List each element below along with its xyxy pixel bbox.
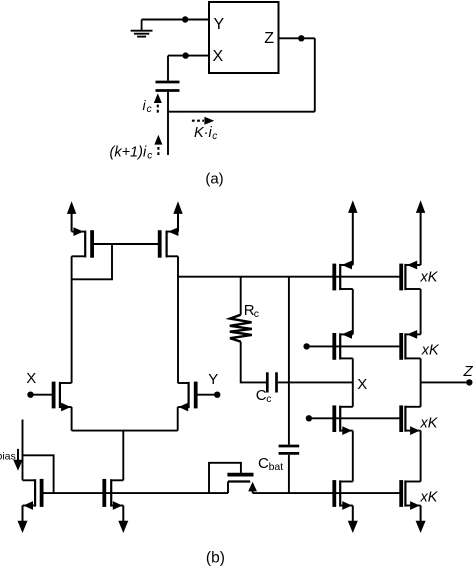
svg-text:bat: bat xyxy=(269,461,284,473)
ground arrow inner column xyxy=(352,506,354,523)
wire X down to capacitor xyxy=(167,56,169,81)
wire X input xyxy=(168,55,209,57)
svg-text:Y: Y xyxy=(208,371,218,388)
capacitor C (floating cap) xyxy=(156,81,180,84)
vdd arrow left mirror xyxy=(71,213,73,232)
wire tail right xyxy=(177,407,179,431)
svg-text:X: X xyxy=(213,48,224,65)
node dot on Z wire xyxy=(298,35,304,41)
wire comp vertical upper xyxy=(288,277,290,445)
wire Y gate xyxy=(196,394,218,396)
wire cascode gate row3 xyxy=(309,417,401,419)
nmos M14 (output row4 inner) xyxy=(332,480,336,507)
svg-text:(b): (b) xyxy=(206,550,225,567)
wire diode tie M1 xyxy=(72,244,112,279)
wire node x horizontal xyxy=(278,381,353,383)
svg-text:(k+1)i: (k+1)i xyxy=(110,144,147,160)
ground arrow M5 xyxy=(22,506,24,523)
wire bias input vertical xyxy=(22,420,24,481)
svg-text:Z: Z xyxy=(264,30,274,47)
wire tail down to sink xyxy=(122,431,124,481)
vdd arrow right mirror xyxy=(177,213,179,232)
svg-text:(a): (a) xyxy=(205,170,223,187)
wire Y input xyxy=(142,19,209,21)
capacitor Cc xyxy=(266,372,269,392)
svg-text:c: c xyxy=(254,308,259,320)
svg-text:K·i: K·i xyxy=(194,125,213,141)
svg-text:c: c xyxy=(147,150,152,161)
pmos M9 (output row1 outer, xK) xyxy=(399,264,403,291)
ground arrow outer column xyxy=(420,506,422,523)
svg-text:xK: xK xyxy=(420,490,439,506)
mos M7 gate loop xyxy=(209,463,241,493)
ground arrow M6 xyxy=(122,506,124,523)
wire X gate xyxy=(31,394,54,396)
nmos M12 (cascode row3 inner) xyxy=(332,405,336,432)
node dot Z xyxy=(466,379,472,385)
svg-text:C: C xyxy=(258,455,269,472)
wire row1-row2 outer xyxy=(420,289,422,334)
wire bias diode tie xyxy=(23,455,54,493)
wire Z output xyxy=(279,37,315,39)
wire M1 drain down xyxy=(71,256,73,383)
pmos M10 (cascode row2 inner) xyxy=(332,333,336,360)
resistor Rc xyxy=(240,277,242,315)
svg-text:X: X xyxy=(26,370,36,387)
wire row2-z outer xyxy=(420,358,422,406)
wire row2-x-node inner xyxy=(352,358,354,406)
wire row1-row2 inner xyxy=(352,289,354,334)
nmos M6 (tail sink) xyxy=(102,479,106,507)
node dot on X wire xyxy=(182,52,188,58)
capacitor Cbat xyxy=(279,445,300,448)
wire Z output xyxy=(421,381,467,383)
svg-text:Z: Z xyxy=(463,363,474,380)
mos M7 source lead xyxy=(227,482,229,494)
ground xyxy=(141,20,143,31)
wire row3-row4 inner xyxy=(352,431,354,482)
pmos M2 (mirror right) xyxy=(158,230,162,258)
wire below capacitor xyxy=(167,92,169,155)
svg-text:xK: xK xyxy=(420,416,439,432)
wire Z feedback vertical xyxy=(314,38,316,111)
svg-text:bias: bias xyxy=(0,451,16,463)
nmos M4 (diff pair right) xyxy=(194,382,198,409)
cascode gate dot row3 xyxy=(306,415,312,421)
cascode gate dot row2 xyxy=(303,343,309,349)
current arrow (k+1)ic (dashed) xyxy=(157,145,159,155)
node dot on Y wire xyxy=(182,16,188,22)
block U1 (current conveyor) xyxy=(209,2,279,73)
wire bias gate line left xyxy=(42,492,228,494)
wire first stage output xyxy=(178,276,401,278)
nmos M13 (cascode row3 outer, xK) xyxy=(399,405,403,432)
svg-text:xK: xK xyxy=(421,343,440,359)
input X dot xyxy=(27,392,33,398)
wire bias gate line right xyxy=(253,492,402,494)
nmos M5 (bias diode) xyxy=(40,479,44,507)
bias current arrow xyxy=(17,449,19,460)
pmos M11 (cascode row2 outer, xK) xyxy=(399,333,403,360)
vdd arrow inner column xyxy=(352,212,354,265)
mos M7 gate bar xyxy=(227,473,253,477)
current arrow ic (dashed) xyxy=(157,103,159,113)
wire comp vertical lower xyxy=(288,455,290,493)
nmos M3 (diff pair left) xyxy=(52,382,56,409)
wire M2 drain down xyxy=(177,256,179,383)
svg-text:Y: Y xyxy=(214,16,225,33)
wire tail horizontal xyxy=(72,430,178,432)
wire row3-row4 outer xyxy=(420,431,422,482)
wire cascode gate row2 xyxy=(307,345,402,347)
svg-text:c: c xyxy=(266,393,271,405)
svg-text:c: c xyxy=(212,131,217,142)
wire Rc to Cc xyxy=(241,342,266,383)
mos M7 channel xyxy=(228,480,250,482)
wire mirror gates xyxy=(92,243,160,245)
pmos M8 (output row1 inner) xyxy=(332,264,336,291)
input Y dot xyxy=(214,392,220,398)
nmos M15 (output row4 outer, xK) xyxy=(399,480,403,507)
pmos M1 (mirror left, diode) xyxy=(90,230,94,258)
mos M7 drain lead with arrow xyxy=(252,484,254,493)
svg-text:c: c xyxy=(147,104,152,115)
wire tail left xyxy=(71,407,73,431)
svg-text:xK: xK xyxy=(420,270,439,286)
current arrow K*ic (dashed) xyxy=(192,120,204,122)
svg-text:X: X xyxy=(357,376,367,393)
wire K*ic horizontal xyxy=(168,111,315,113)
svg-text:C: C xyxy=(256,387,267,404)
vdd arrow outer column xyxy=(420,212,422,265)
